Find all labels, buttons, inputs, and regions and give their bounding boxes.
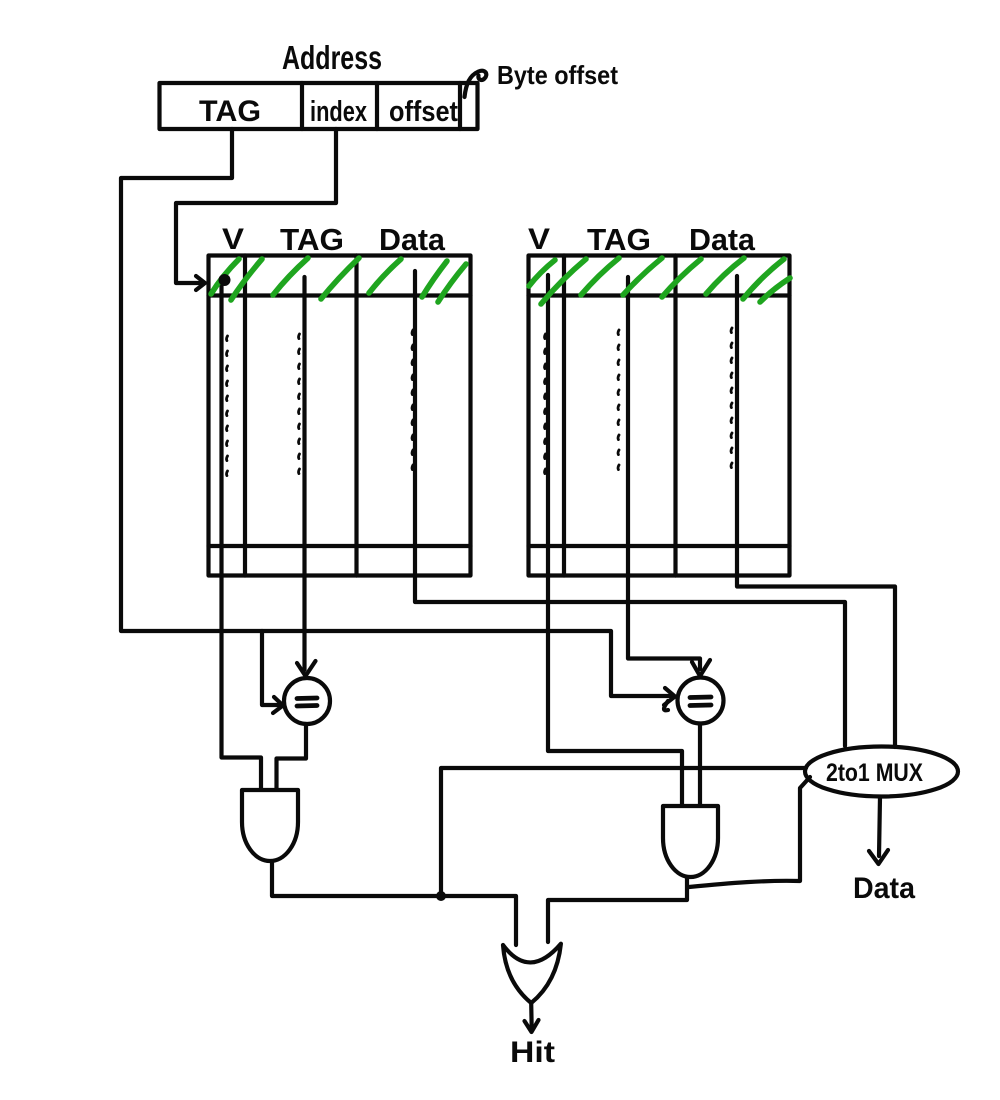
- wire: AND way1 output (hit1) to OR gate: [548, 877, 687, 942]
- wire: hit0 junction to MUX select: [441, 768, 806, 896]
- way0 valid bit dot: [219, 274, 231, 286]
- way0 hatched row bottom line: [209, 293, 471, 297]
- comparator way0: [284, 678, 330, 724]
- svg-text:V: V: [222, 223, 244, 256]
- arrowhead index into way0: [196, 276, 205, 290]
- svg-text:V: V: [528, 223, 550, 256]
- way1 hatched row bottom line: [529, 293, 790, 297]
- wire: MUX output: [879, 797, 880, 856]
- continuation dots way1 V column: [543, 334, 547, 474]
- svg-text:Data: Data: [689, 222, 756, 257]
- OR gate: [503, 944, 561, 1003]
- wire: comparator way1 output to AND gate: [698, 724, 702, 805]
- wire: index field to cache way0: [176, 129, 336, 283]
- cache way0 table outline: [209, 256, 471, 576]
- continuation dots way1 TAG column: [617, 330, 621, 470]
- wire: way1 TAG column to comparator: [628, 277, 700, 669]
- svg-text:Address: Address: [282, 39, 382, 76]
- wire: comparator way0 output to AND gate: [277, 724, 307, 789]
- svg-text:offset: offset: [389, 96, 458, 128]
- wire: way0 TAG column to comparator: [302, 277, 306, 670]
- field divider TAG/index: [300, 83, 304, 129]
- equals sign comparator way1: [690, 697, 711, 706]
- wire: way0 V column to AND gate: [222, 280, 262, 789]
- continuation dots way0 V column: [225, 336, 229, 476]
- address register box: [160, 83, 478, 129]
- field divider offset/byte: [458, 83, 462, 129]
- arrowhead way0 TAG into comparator: [297, 661, 316, 676]
- svg-text:Data: Data: [379, 222, 446, 257]
- wire: way1 Data column to MUX: [737, 276, 895, 747]
- continuation dots way0 Data column: [411, 330, 415, 470]
- svg-text:TAG: TAG: [587, 222, 651, 257]
- green hatching way0 row: [211, 258, 466, 302]
- svg-text:Byte offset: Byte offset: [497, 60, 618, 90]
- way1 bottom row line: [529, 544, 790, 548]
- arrowhead into comparator way1: [664, 688, 675, 705]
- byte offset callout arrow: [465, 71, 487, 97]
- svg-text:Hit: Hit: [510, 1036, 555, 1069]
- wire: OR output (hit): [529, 1003, 534, 1029]
- wire: TAG field to comparators: [121, 129, 671, 696]
- way0 bottom row line: [209, 544, 471, 548]
- way1 divider V/TAG: [562, 256, 566, 576]
- continuation dots way1 Data column: [730, 328, 734, 468]
- wire: hit1 to MUX select: [689, 777, 810, 887]
- way0 divider TAG/Data: [354, 256, 358, 576]
- arrowhead into comparator way0: [273, 697, 283, 713]
- wire: way1 V column to AND gate: [548, 275, 682, 805]
- equals sign comparator way0: [297, 698, 317, 706]
- wire: TAG branch to comparator way0: [262, 631, 281, 705]
- junction dot hit0/select: [436, 891, 446, 901]
- svg-text:2to1 MUX: 2to1 MUX: [826, 759, 923, 787]
- continuation dots way0 TAG column: [297, 334, 301, 474]
- arrowhead MUX output: [869, 850, 888, 864]
- cache way1 table outline: [529, 256, 790, 576]
- svg-text:index: index: [310, 96, 367, 128]
- AND gate way1: [663, 806, 718, 877]
- svg-text:Data: Data: [853, 872, 915, 905]
- AND gate way0: [242, 790, 298, 861]
- way1 divider TAG/Data: [673, 256, 677, 576]
- arrowhead way1 TAG into comparator: [692, 660, 710, 676]
- wire: way0 Data column to MUX: [415, 271, 845, 746]
- arrowhead hit output: [525, 1020, 539, 1032]
- squiggle on comparator way1 arrow: [664, 701, 668, 710]
- 2-to-1 MUX: [805, 747, 958, 797]
- comparator way1: [678, 678, 724, 724]
- green hatching way1 row: [529, 258, 790, 304]
- way0 divider V/TAG: [243, 256, 247, 576]
- svg-text:TAG: TAG: [280, 222, 344, 257]
- svg-text:TAG: TAG: [199, 95, 261, 128]
- field divider index/offset: [375, 83, 379, 129]
- wire: AND way0 output (hit0) to OR gate: [272, 862, 516, 945]
